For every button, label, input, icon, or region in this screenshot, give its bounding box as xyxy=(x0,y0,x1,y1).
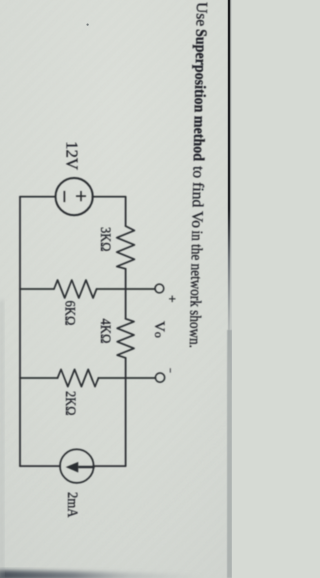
wire node A to resistor R3 xyxy=(97,288,126,290)
wire left branch upper xyxy=(92,196,125,198)
wire top rail right segment xyxy=(125,358,127,466)
dust speck xyxy=(87,24,89,26)
svg-text:−: − xyxy=(166,368,176,373)
wire bottom rail xyxy=(19,197,21,466)
wire right branch upper xyxy=(93,465,125,467)
wire node B stub to output terminal xyxy=(126,377,156,379)
current source I1 circle xyxy=(60,449,94,483)
wire node B to resistor R4 xyxy=(98,377,125,379)
svg-text:Vo: Vo xyxy=(151,321,167,338)
current source I1 arrow (downward) xyxy=(66,462,95,473)
resistor R3 6K zigzag xyxy=(54,280,97,298)
wire node A stub to output terminal xyxy=(126,288,155,290)
wire resistor R3 to bottom rail xyxy=(20,288,54,290)
resistor R1 3K zigzag xyxy=(117,226,135,269)
voltage source V1 circle xyxy=(56,178,93,215)
wire left branch lower xyxy=(20,196,55,198)
output terminal node + xyxy=(155,284,164,293)
svg-text:to find Vo: to find Vo xyxy=(188,166,206,229)
title text xyxy=(186,2,210,348)
svg-text:4KΩ: 4KΩ xyxy=(97,319,113,344)
screen edge dark band (right) xyxy=(0,570,234,578)
svg-text:2mA: 2mA xyxy=(64,492,80,518)
wire right branch lower xyxy=(20,465,60,467)
svg-text:+: + xyxy=(165,295,180,303)
wire resistor R4 to bottom rail xyxy=(20,377,58,379)
svg-text:12V: 12V xyxy=(63,141,82,170)
resistor R4 2K zigzag xyxy=(58,369,99,386)
screen edge dark line (top) xyxy=(228,0,231,380)
output terminal node - xyxy=(155,373,164,382)
svg-text:Superposition method: Superposition method xyxy=(190,29,210,162)
photo background xyxy=(0,0,232,578)
svg-text:3KΩ: 3KΩ xyxy=(97,227,113,252)
svg-text:2KΩ: 2KΩ xyxy=(62,391,78,416)
resistor R2 4K zigzag xyxy=(117,319,134,358)
polarity mark + inside source V1 xyxy=(76,191,86,201)
wire top rail middle segment xyxy=(125,269,127,319)
svg-text:6KΩ: 6KΩ xyxy=(62,301,78,326)
polarity mark - inside source V1 xyxy=(63,191,65,202)
wire top rail left segment xyxy=(125,197,127,226)
svg-text:in the network shown.: in the network shown. xyxy=(186,230,205,348)
svg-text:Use: Use xyxy=(192,2,210,27)
